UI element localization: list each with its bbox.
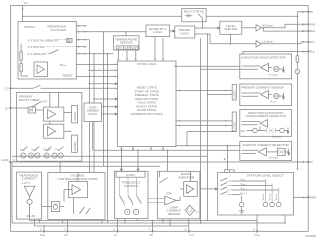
svg-text:MGU846: MGU846 (306, 234, 317, 238)
step dimmer logic box (84, 103, 102, 122)
svg-text:FS: FS (310, 10, 314, 14)
pin 2 SLS (right) (303, 50, 315, 54)
state logic box (118, 61, 177, 147)
svg-text:BOOST TIMER: BOOST TIMER (19, 98, 40, 102)
temp threshold cells 45 105 140 (116, 46, 138, 50)
wires into comparators from box top (50, 93, 59, 125)
svg-text:AMPLIFIER: AMPLIFIER (178, 176, 195, 180)
wire pin12 row to state logic (41, 87, 117, 89)
svg-text:45°: 45° (118, 46, 122, 50)
svg-text:GLS: GLS (310, 40, 315, 44)
frequency control box (115, 171, 149, 218)
svg-text:12: 12 (5, 87, 8, 91)
svg-text:SUPPLY: SUPPLY (24, 25, 36, 29)
wire row y83.7 to state logic (89, 83, 117, 85)
svg-text:CAPACITIVE MODE DETECTOR: CAPACITIVE MODE DETECTOR (241, 56, 287, 60)
wire AGND down-left (11, 162, 13, 223)
pin 13 GHS (right) (302, 22, 316, 26)
rail y150 (94, 150, 240, 171)
supply box (18, 22, 76, 80)
switch (preheat top) (32, 102, 42, 108)
temp sensor feed (125, 32, 127, 36)
svg-text:RAMP2: RAMP2 (73, 141, 77, 150)
current source row (preheat) (20, 148, 64, 159)
wire state logic to cap detector (175, 65, 240, 67)
pin 12 (left) (5, 87, 33, 91)
logic strip (saturation) (232, 112, 236, 131)
svg-text:LOGIC: LOGIC (233, 90, 237, 98)
HS driver (242, 24, 273, 32)
clamp diamond (lamp box) (185, 205, 199, 215)
svg-text:BOOTSTRAP: BOOTSTRAP (184, 10, 204, 14)
preheat boost timer box (17, 93, 82, 162)
op-amp (supply) (34, 62, 48, 77)
svg-text:16: 16 (5, 106, 8, 110)
wire LS driver to GLS (261, 42, 307, 44)
supply out row5 (5V analog to temp sensor) (76, 53, 113, 55)
bottom bus y226 (35, 225, 189, 227)
pin 15 AGND (left) (1, 158, 16, 162)
svg-text:1 μA: 1 μA (20, 148, 26, 152)
svg-text:GHS: GHS (310, 22, 316, 26)
supply out row4 (76, 46, 86, 48)
bootstrap box (182, 9, 206, 22)
level shifter box (220, 21, 242, 34)
svg-text:dim: dim (241, 129, 245, 133)
current mirror box (VCO) (51, 202, 59, 212)
boost amp inner box (184, 182, 198, 197)
bottom pin CS (185, 227, 195, 237)
pin 5 (right lower) (297, 160, 313, 164)
logic strip (freq control) (116, 171, 145, 177)
logic strip (preheat sensor) (232, 85, 236, 101)
mixer (ignition) (266, 148, 289, 155)
wire ref box to mirror (41, 206, 51, 208)
rail y166 (12, 165, 160, 167)
arrow divide to driver (170, 30, 175, 32)
bottom bus y223 (12, 222, 285, 224)
bottom pin CRR (40, 227, 45, 237)
state logic bottom output stubs (121, 147, 163, 151)
svg-text:VOLTAGES: VOLTAGES (50, 28, 66, 32)
svg-text:POWER-DOWN STATE: POWER-DOWN STATE (131, 112, 163, 116)
arrows into logic box below state machine (121, 150, 123, 171)
pin 3 (right lower) (293, 196, 317, 200)
junction VDD rail (22, 16, 23, 17)
svg-text:RREF: RREF (41, 233, 46, 237)
boost amplifier / lamp current sensor box (158, 171, 200, 219)
bottom pin CF (64, 227, 69, 237)
bus vertical B (93, 54, 95, 173)
current sources (saturation) (241, 126, 289, 138)
stepped wire saturation to ignition row (187, 132, 236, 146)
svg-text:VREF: VREF (310, 196, 317, 200)
bus vertical A (88, 40, 90, 173)
wire E to cap detector (201, 68, 242, 70)
svg-text:STATE LOGIC: STATE LOGIC (137, 62, 157, 66)
switches above current sources (preheat) (22, 147, 64, 152)
mixer (cap mode) (268, 66, 284, 72)
svg-text:9: 9 (253, 227, 255, 231)
wire state logic to saturation detector (175, 120, 232, 122)
current source (ref current) (27, 199, 32, 204)
wire F to preheat sensor (208, 94, 233, 96)
bus vertical E (200, 38, 202, 223)
wire supply left (21, 44, 28, 76)
sample box (above step dim) (225, 170, 235, 183)
wire RESET to state logic (76, 76, 116, 78)
svg-text:FV: FV (310, 160, 314, 164)
bus vertical D (103, 32, 105, 167)
svg-text:OVERCURRENT DETECTOR: OVERCURRENT DETECTOR (245, 114, 286, 118)
svg-text:RESET: RESET (63, 74, 73, 78)
resistor R (supply, lower) (20, 63, 22, 72)
svg-text:80 μA: 80 μA (44, 148, 51, 152)
pin 16 (left) (5, 106, 12, 110)
svg-text:LOGIC: LOGIC (88, 112, 98, 116)
bottom pin TB (253, 227, 260, 237)
ramp gen box 1 (preheat) (72, 106, 78, 123)
comparator (saturation) (260, 120, 268, 127)
wire OTA to boost box (177, 189, 184, 201)
wires inside VCO (60, 172, 78, 214)
step labels (241, 178, 247, 195)
OTA (lamp box) (148, 191, 177, 205)
capacitive mode detector box (240, 54, 292, 79)
long rail AGND (11, 161, 309, 163)
diode (bootstrap) (185, 14, 193, 17)
svg-text:8: 8 (185, 227, 187, 231)
svg-text:TGmax: TGmax (60, 63, 67, 67)
svg-text:SHS: SHS (310, 29, 316, 33)
svg-text:7: 7 (149, 227, 151, 231)
wire state logic row to saturation detector (175, 125, 232, 127)
charge pump (freq control) (125, 209, 139, 214)
leader dashes (supply rows) (45, 40, 77, 54)
mixer (preheat sensor) (268, 93, 284, 99)
svg-text:AGND: AGND (1, 158, 9, 162)
svg-text:CURRENT: CURRENT (22, 177, 37, 181)
rail y156 (12, 155, 208, 157)
svg-text:105°: 105° (124, 46, 129, 50)
svg-text:I4: I4 (56, 148, 59, 152)
supply out row2 (76, 31, 146, 33)
wire driver logic to LS driver (195, 34, 256, 44)
bottom pin CI (114, 227, 118, 237)
svg-text:5 μA: 5 μA (32, 148, 38, 152)
svg-text:LS driver: LS driver (262, 40, 273, 44)
pin 12 SHS (right) (302, 29, 316, 33)
switches (VCO) (79, 207, 90, 214)
temperature sensor box (113, 36, 139, 50)
VCO box (48, 173, 105, 220)
svg-text:5 V DIGITAL MEMORY: 5 V DIGITAL MEMORY (28, 39, 59, 43)
wire state logic to preheat sensor (175, 90, 232, 92)
switches (freq control) (120, 177, 142, 206)
svg-text:5 V ANALOG: 5 V ANALOG (28, 52, 46, 56)
wire rail to VCO (59, 162, 61, 173)
current sources right (step dim) (261, 179, 281, 207)
wire state logic to ignition row (175, 146, 240, 170)
bus vertical C (107, 54, 109, 223)
switch (5V analog) (49, 50, 59, 54)
svg-text:CSW: CSW (190, 233, 195, 237)
diode (5V digital memory) (67, 39, 72, 43)
svg-text:SENSOR: SENSOR (168, 212, 182, 216)
wire row y99 to state logic (94, 98, 118, 100)
svg-text:F17: F17 (43, 99, 48, 103)
VDD rail right vertical (296, 12, 298, 169)
VDD rail top (23, 15, 298, 17)
svg-text:5: 5 (40, 227, 42, 231)
net SLS row (243, 51, 307, 54)
wire level shifter to LS input (230, 34, 232, 44)
wire HS to SHS (264, 28, 307, 31)
bus vertical F (207, 34, 209, 221)
svg-text:IGNITION CURRENT DETECTOR: IGNITION CURRENT DETECTOR (243, 143, 290, 147)
svg-text:SLS: SLS (310, 50, 315, 54)
comparator (preheat sensor) (261, 90, 269, 98)
switch (lamp box) (159, 171, 167, 183)
wire step dim to bus (257, 215, 285, 231)
driver logic box (175, 26, 195, 38)
arrow into state logic (pin12 row) (115, 87, 117, 89)
svg-text:CP: CP (150, 233, 154, 237)
ramp gen box 2 (preheat) (72, 135, 78, 152)
comparator box 2 (preheat) (44, 124, 64, 138)
ground (step dim) (239, 211, 244, 214)
svg-text:LOGIC: LOGIC (180, 31, 190, 35)
wire bus A row to state logic (89, 69, 116, 71)
svg-text:LOGIC: LOGIC (126, 173, 136, 177)
resistor (right rail) (296, 56, 299, 63)
comparator (cap mode) (261, 63, 269, 71)
svg-text:PREHEAT CURRENT SENSOR: PREHEAT CURRENT SENSOR (241, 86, 285, 90)
comparator (ignition) (259, 148, 267, 156)
bottom bus y220 (30, 220, 257, 222)
pin 14 FS (right) (297, 10, 313, 14)
divide by 2 logic box (146, 25, 170, 37)
svg-text:HS driver: HS driver (262, 24, 273, 28)
svg-text:OTA: OTA (166, 191, 171, 195)
current source (step dim left) (239, 196, 244, 211)
wire TGmax to state logic (76, 63, 116, 65)
wire lamp box top to boost amp (190, 171, 192, 181)
supply out row3 (76, 39, 89, 41)
diode box (preheat) (28, 107, 36, 113)
current source (right rail) (295, 69, 300, 74)
arrow down near step dim (224, 158, 226, 160)
svg-text:1.27 V: 1.27 V (22, 181, 31, 185)
supply out row1 (76, 25, 86, 27)
svg-text:TBURN: TBURN (254, 233, 260, 237)
svg-text:6: 6 (114, 227, 116, 231)
svg-text:STEP DIM LEVEL SELECT: STEP DIM LEVEL SELECT (247, 173, 284, 177)
svg-text:4: 4 (64, 227, 66, 231)
wires switches to rails (step dim) (232, 181, 279, 195)
box output stubs to buses (30, 219, 40, 226)
inductor saturation overcurrent detector box (240, 110, 292, 137)
switch on pin12 row (33, 85, 41, 88)
svg-text:2R-2R: 2R-2R (27, 214, 37, 218)
switch (bootstrap) (198, 13, 203, 21)
wire bootstrap down (202, 22, 204, 28)
wire pin16 through diode to comparators (11, 108, 72, 131)
resistor R (supply, upper) (20, 52, 22, 61)
svg-text:SENSOR: SENSOR (120, 41, 134, 45)
svg-text:CI: CI (115, 233, 118, 237)
arrows step dimmer logic to state logic (102, 106, 118, 108)
svg-text:140°: 140° (132, 46, 137, 50)
bottom pin CP (149, 227, 154, 237)
svg-text:RAMP1: RAMP1 (73, 111, 77, 120)
step dim level select box (218, 172, 294, 215)
svg-text:CF: CF (65, 233, 69, 237)
LS driver (256, 40, 273, 48)
switches (step dim) (220, 178, 232, 195)
wires divide/driver down to state logic (155, 37, 163, 59)
comparator box 1 (preheat) (44, 107, 64, 121)
wire HS driver to GHS (261, 24, 307, 28)
wire driver logic to level shifter (195, 27, 220, 29)
svg-text:LOGIC: LOGIC (153, 30, 163, 34)
pin 1 GLS (right) (303, 40, 315, 44)
svg-text:VDD: VDD (24, 1, 29, 5)
opamp box (VCO) (69, 182, 88, 198)
svg-text:SHIFTER: SHIFTER (224, 27, 238, 31)
svg-text:LOGIC: LOGIC (233, 121, 237, 129)
svg-text:5 V DIGITAL: 5 V DIGITAL (28, 45, 45, 49)
preheat current sensor box (240, 84, 292, 106)
reference current box (17, 172, 42, 219)
ignition current detector box (240, 142, 292, 161)
wire lamp box to step dim (200, 188, 218, 190)
wires temp cells to state logic (118, 50, 136, 59)
pin VDD (22, 1, 29, 21)
amp triangle (ref current) (24, 186, 35, 196)
